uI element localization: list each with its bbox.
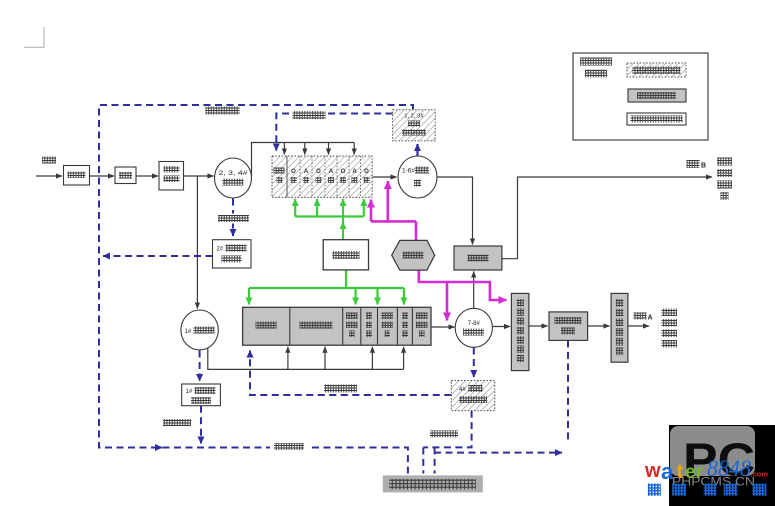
wire: green air drop 2 into bio tank [355, 288, 357, 305]
legend: outer frame [573, 53, 708, 140]
wire: green air riser 2 [316, 199, 318, 217]
wire: primary tanks 2-4 outlet riser and top manifold over AO tank [252, 143, 355, 177]
wire: magenta riser into AO tank bottom [370, 200, 373, 222]
wire: green air main from blower down to bio tank manifold [345, 270, 347, 288]
box: primary sludge pump house 2 (2#初沉污泥泵房) [213, 240, 252, 268]
wire: pump house to fine screen grit tank [136, 175, 158, 177]
label: 鼓风机房 [333, 251, 360, 259]
svg-text:A: A [329, 169, 334, 175]
svg-text:O: O [316, 169, 321, 175]
wire: green air riser 1 [294, 199, 296, 217]
legend: retained structures item (white) [627, 113, 686, 125]
label: 粗格栅 [68, 172, 86, 179]
wire: influent arrow into coarse screen [36, 175, 62, 177]
svg-text:1#: 1# [186, 389, 193, 395]
label: 接触池 [468, 255, 489, 262]
box: RAS pump houses 1-3 (hatched, 1、2、3#回流污泥泵房) [393, 110, 436, 141]
wire: green air riser 3 [363, 199, 365, 217]
svg-text:4#: 4# [459, 387, 466, 393]
wire: bottom-right surplus sludge line with right arrow [434, 452, 562, 454]
wire: magenta stem from dosing room top [415, 221, 418, 240]
label: 进水 [42, 157, 56, 164]
circle: secondary clarifiers 1-6 (1-6#二沉池) [398, 156, 437, 198]
wire: green arrowhead below upper air manifold [342, 222, 344, 228]
box: sludge dewatering and hauling (污泥脱水后外运) [383, 475, 483, 492]
svg-text:A: A [352, 169, 357, 175]
label: 纤维转盘 滤池 [555, 317, 582, 324]
label: 转碟曝气池 [300, 322, 333, 329]
wire: sludge return from clarifier 4 pump house to anaerobic zone [250, 351, 451, 396]
wire: bottom riser 3 into bio tank [371, 347, 373, 370]
box: clarifier 4 return pump house (hatched, 4#二沉回流泵房) [451, 381, 495, 411]
wire: green upper air manifold [295, 215, 364, 217]
wire: primary tank 1 sludge to pump house 1 [199, 351, 201, 382]
wire: magenta branch down onto clarifier 7-8 inlet pipe [446, 282, 449, 321]
label: legend title 建构筑物 图例: [580, 58, 612, 66]
label: 初沉污泥 (below tanks 2-4) [216, 214, 251, 224]
watermark: water8848.com wordmark [644, 459, 704, 484]
svg-text:2#: 2# [217, 247, 224, 253]
wire: bottom riser 1 into bio tank [287, 347, 289, 370]
wire: blue dashed surplus sludge big loop [99, 105, 413, 474]
label: 微孔曝气池 (cell 7) [416, 313, 428, 320]
wire: branch down to primary tank 1 [196, 176, 198, 309]
box: blower house (鼓风机房) [323, 240, 368, 270]
label: 微孔曝气池 (cell 3) [346, 313, 358, 320]
svg-text:A: A [648, 315, 653, 322]
wire: filter backwash down [567, 340, 569, 440]
wire: bottom riser 4 into bio tank [403, 347, 405, 370]
wire: manifold drop 1 into AO tank [283, 143, 285, 155]
wire: primary tanks 2-4 sludge down to pump house 2 [232, 199, 234, 237]
wire: pump house 1 down to surplus sludge line [200, 406, 202, 444]
label: 接后续处理构筑物 (vertical column) [662, 309, 678, 317]
wire: green air drop 1 into bio tank [248, 288, 250, 305]
box: biological tank (gray, cells 厌氧区/转碟曝气池/...) [243, 307, 431, 345]
svg-text:B: B [701, 163, 706, 170]
label: 一级A [634, 313, 647, 320]
wire: magenta riser into AO outlet pipe [386, 181, 389, 221]
wire: static mixer to fiber disc filter [529, 325, 548, 327]
page corner mark [24, 27, 44, 48]
box: contact tank (接触池) [454, 246, 502, 270]
label: legend item 3 text 保留现状构筑物 [631, 116, 683, 123]
svg-text:2, 3, 4#: 2, 3, 4# [219, 170, 249, 177]
svg-text:O: O [291, 169, 296, 175]
svg-text:A: A [304, 169, 309, 175]
label: 中间提升泵房 (vertical) [616, 299, 624, 307]
label: 泵房 [119, 172, 132, 179]
label: 微孔曝气池 (cell 5) [382, 313, 394, 320]
wire: clarifiers 7-8 down to clarifier 4 pump house [473, 348, 475, 378]
label: 污泥脱水后外运 [389, 479, 476, 490]
wire: bio tank to clarifiers 7-8 [431, 326, 455, 328]
label: 缺氧池 (cell 6) [402, 313, 408, 320]
wire: magenta dosing horizontal [371, 220, 416, 223]
svg-text:O: O [364, 169, 369, 175]
svg-text:1-6#: 1-6# [402, 168, 415, 175]
wire: magenta from dosing room bottom to mixer [419, 270, 507, 300]
box: coarse screen (粗格栅) [64, 166, 90, 186]
label: legend item 1 text 需改建构筑物 [633, 67, 681, 75]
watermark: black background panel [669, 425, 775, 506]
label: 厌氧区 [256, 322, 277, 329]
svg-text:1, 2, 3#: 1, 2, 3# [404, 114, 424, 120]
label: 污泥回流 (top) [290, 110, 328, 121]
circle: primary sedimentation tank 1 (1#初沉池) [181, 310, 218, 350]
label: 剩余污泥 (top) [206, 107, 240, 115]
label: 缺氧池 (cell 4) [366, 313, 372, 320]
label: 接入北塘排污河 (vertical column) [717, 158, 732, 166]
box: primary sludge pump house 1 (1#初沉污泥泵房) [182, 384, 221, 406]
box: pump house (泵房) [115, 167, 136, 184]
watermark: 中国水业网 (blue glyph blobs) [648, 483, 661, 496]
label: 剩余污泥 (right) [430, 431, 458, 438]
wire: manifold drop 3 into AO tank [328, 143, 330, 155]
wire: green air drop 4 into bio tank [403, 288, 405, 305]
wire: manifold drop 2 into AO tank [304, 143, 306, 155]
wire: green lower air manifold [249, 287, 404, 289]
label: 剩余污泥 (bottom, on dashed line) [270, 441, 308, 453]
label: 管式静态混合器 (vertical) [517, 299, 524, 306]
wire: manifold drop 4 into AO tank [353, 143, 355, 155]
wire: clarifiers 1-6 up to RAS pump house (solid blue) [416, 144, 418, 156]
wire: green air drop 3 into bio tank [376, 288, 378, 305]
label: 一级B [687, 160, 700, 168]
box: tubular static mixer (管式静态混合器) [511, 293, 529, 370]
svg-text:O: O [341, 169, 346, 175]
wire: pump house outlet arrow (grade A) [628, 325, 649, 327]
label: 污泥回流 (bottom) [320, 382, 361, 394]
svg-text:w: w [644, 460, 661, 482]
label: 初沉污泥 (bottom) [163, 419, 191, 426]
wire: fine screen to primary tanks 2-4 [184, 175, 214, 177]
watermark: gray rounded logo tile [670, 426, 755, 476]
legend: rebuilt structures item (hatched) [627, 63, 686, 77]
circle: secondary clarifiers 7-8 (7-8#二沉池) [455, 308, 492, 347]
label: 加药间 [403, 252, 424, 259]
wire: AO tank to secondary clarifiers 1-6 [372, 176, 396, 178]
wire: filter to intermediate pump house [588, 325, 610, 327]
wire: blue dashed sludge return from RAS pump house to AO tank [276, 114, 392, 151]
legend: new structures item (gray) [628, 89, 686, 102]
label: AO cells O/A letters and 段 [291, 169, 369, 175]
svg-text:7-8#: 7-8# [468, 321, 481, 327]
wire: clarifiers 1-6 to contact tank [437, 177, 473, 245]
wire: primary tank 1 outlet bottom manifold [208, 348, 404, 369]
wire: clarifier 4 pump house bottom to dewatering drops [423, 411, 471, 474]
wire: clarifiers 7-8 up to contact tank [473, 272, 475, 309]
hexagon: dosing room (加药间) [392, 240, 435, 270]
svg-text:1#: 1# [185, 329, 192, 335]
wire: bottom riser 2 into bio tank [324, 347, 326, 370]
box: fine screen grit tank (细格栅沉砂池) [159, 162, 184, 191]
box: AO aeration tank (hatched, cells) [272, 156, 372, 197]
box: fiber rotating disc filter (纤维转盘滤池) [549, 312, 588, 341]
box: intermediate lift pump house (中间提升泵房) [611, 293, 628, 362]
label: legend item 2 text 新建构筑物 [637, 92, 676, 99]
label: AO cell 1 缺氧段 [274, 168, 285, 174]
wire: green air main from blower up into AO tank [342, 199, 344, 240]
wire: pump house 2 sludge to left loop [103, 255, 213, 257]
wire: coarse screen to pump house [90, 175, 115, 177]
label: 细格栅 / 沉砂池 [164, 166, 180, 173]
wire: contact tank outlet to outfall arrow (grade B) [502, 177, 712, 259]
wire: clarifiers 7-8 to static mixer [492, 326, 510, 328]
circle: primary sedimentation tanks 2-4 (2、3、4#初沉池) [215, 158, 252, 198]
wire: direction arrow on bottom surplus sludge line [156, 447, 162, 449]
